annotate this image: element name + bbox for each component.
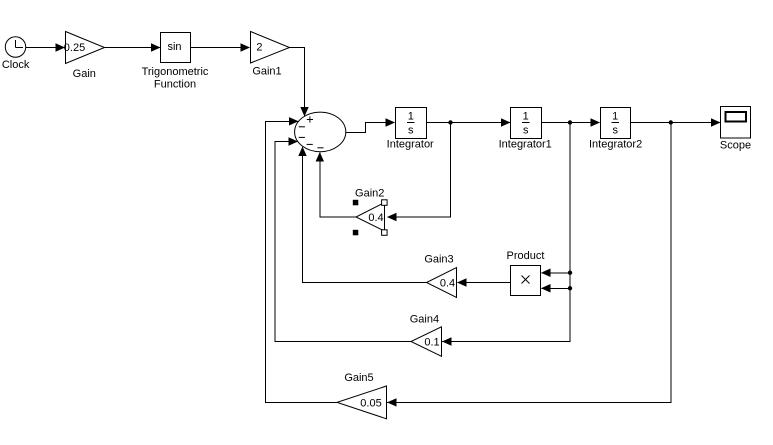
gain Gain value 0.25 (64, 32, 105, 81)
svg-text:Integrator: Integrator (387, 139, 434, 151)
wire Gain4 to Sum left lower (275, 137, 411, 341)
gain Gain2 value 0.4 (selected) (353, 188, 387, 236)
junction at Product input 1 (568, 271, 572, 275)
svg-text:Integrator2: Integrator2 (589, 139, 642, 151)
svg-text:0.1: 0.1 (424, 336, 439, 348)
svg-text:2: 2 (256, 42, 262, 54)
svg-text:sin: sin (167, 41, 181, 53)
svg-text:1: 1 (523, 111, 529, 123)
junction at Product input 2 (568, 286, 572, 290)
wire Product to Gain3 (457, 278, 511, 286)
integrator Integrator (387, 108, 434, 151)
wire Gain2 to Sum bottom (316, 152, 356, 217)
wire Integrator1 to Integrator2 (541, 118, 600, 126)
wire branch Integrator1 output down to Product and Gain4 (442, 123, 570, 346)
svg-text:0.05: 0.05 (360, 397, 381, 409)
junction after Integrator (448, 120, 452, 124)
svg-text:0.25: 0.25 (64, 42, 85, 54)
wire Gain to Trigonometric Function (105, 43, 161, 51)
svg-text:Trigonometric: Trigonometric (142, 66, 209, 78)
junction after Integrator1 (568, 120, 572, 124)
wire to Product input 2 (541, 284, 570, 292)
wire Gain5 to Sum left upper (265, 117, 337, 402)
svg-text:Gain3: Gain3 (424, 254, 453, 266)
wire Clock to Gain (26, 43, 66, 51)
gain Gain1 value 2 (251, 32, 290, 78)
svg-text:Gain2: Gain2 (355, 188, 384, 200)
wire Trigonometric Function to Gain1 (191, 43, 251, 51)
svg-text:1: 1 (612, 111, 618, 123)
svg-text:Gain5: Gain5 (344, 372, 373, 384)
svg-text:1: 1 (408, 111, 414, 123)
wire Integrator2 to Scope (631, 118, 721, 126)
svg-text:Integrator1: Integrator1 (499, 139, 552, 151)
clock Clock (2, 37, 30, 71)
svg-text:0.4: 0.4 (368, 212, 383, 224)
svg-text:s: s (612, 125, 618, 137)
gain Gain5 value 0.05 (337, 372, 387, 419)
svg-text:Gain: Gain (73, 68, 96, 80)
svg-text:0.4: 0.4 (440, 277, 455, 289)
product Product (507, 250, 545, 296)
gain Gain4 value 0.1 (410, 314, 442, 357)
integrator Integrator1 (499, 108, 552, 151)
svg-text:Gain4: Gain4 (410, 314, 439, 326)
wire branch Integrator2 output to Gain5 (387, 123, 671, 407)
wire Gain3 to Sum bottom (298, 147, 426, 283)
integrator Integrator2 (589, 108, 642, 151)
junction after Integrator2 (669, 120, 673, 124)
wire Gain1 to Sum top (290, 48, 309, 117)
gain Gain3 value 0.4 (424, 254, 456, 298)
svg-text:s: s (523, 125, 529, 137)
svg-text:Scope: Scope (720, 140, 751, 152)
svg-text:Gain1: Gain1 (252, 66, 281, 78)
sum block Sum (295, 112, 346, 152)
wire branch Integrator output to Gain2 (387, 123, 451, 222)
block Trigonometric Function (sin) (142, 33, 209, 91)
scope Scope (720, 107, 751, 152)
svg-text:Function: Function (154, 79, 196, 91)
svg-text:Clock: Clock (2, 59, 30, 71)
wire Integrator to Integrator1 (427, 118, 511, 126)
wire Sum to Integrator (346, 118, 395, 132)
wire to Product input 1 (541, 269, 570, 277)
svg-text:s: s (408, 125, 414, 137)
svg-text:Product: Product (507, 250, 545, 262)
